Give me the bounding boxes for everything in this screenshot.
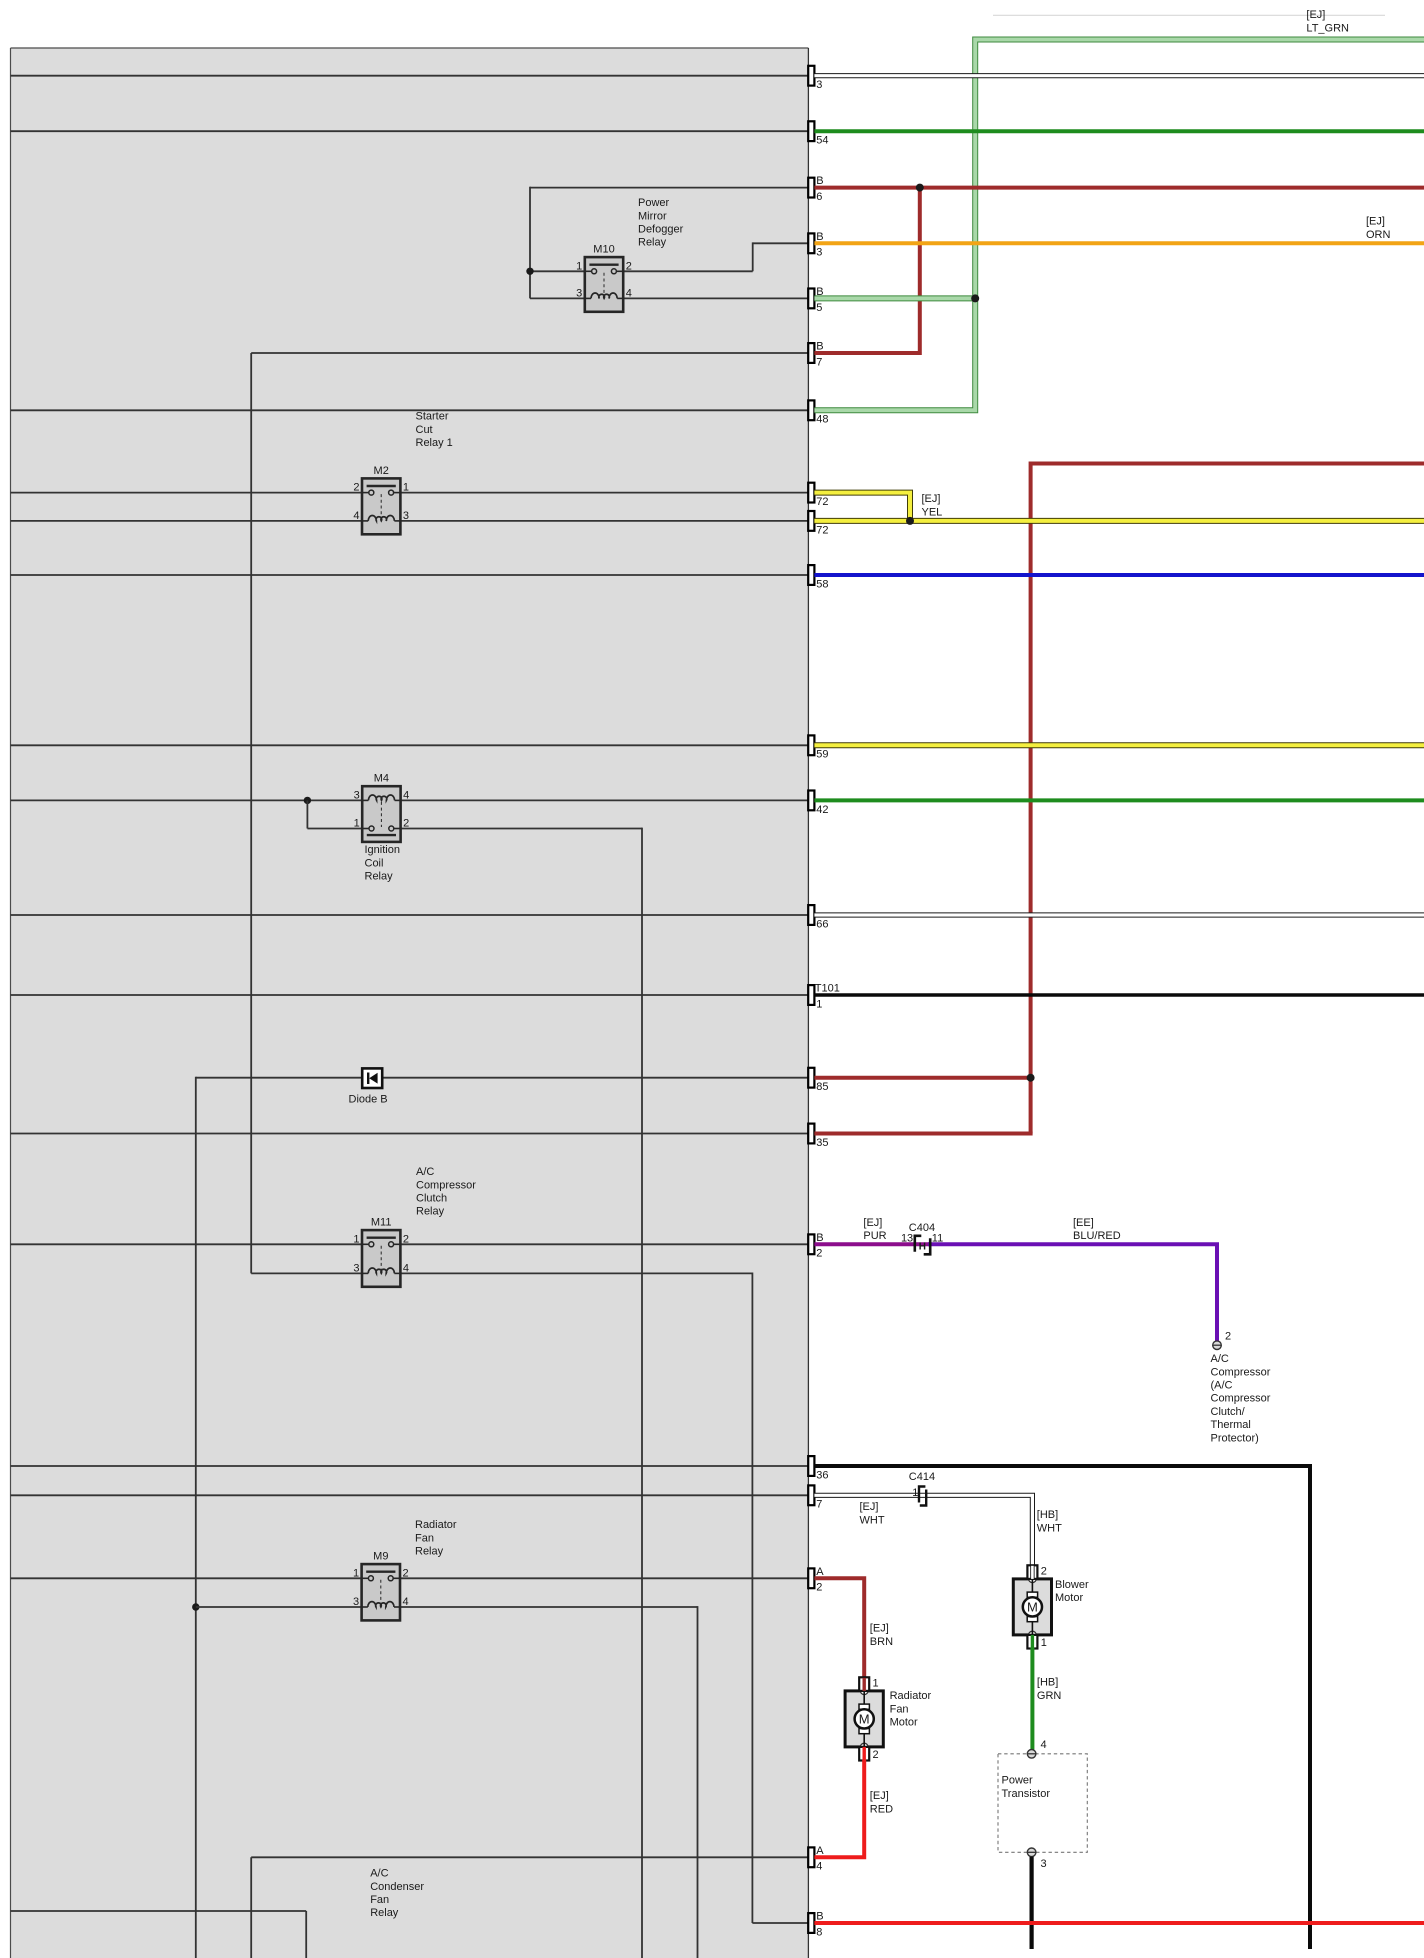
- svg-text:2: 2: [626, 260, 632, 272]
- pin 35: [808, 1124, 828, 1149]
- svg-text:8: 8: [816, 1926, 822, 1938]
- pin 59: [808, 735, 828, 760]
- svg-text:A/C: A/C: [416, 1166, 434, 1178]
- wire M9 coil row and pin4 drop: [196, 1606, 698, 1958]
- svg-text:Power: Power: [1002, 1775, 1034, 1787]
- svg-text:Mirror: Mirror: [638, 210, 667, 222]
- svg-text:4: 4: [1041, 1739, 1047, 1751]
- wire M11 pin4 drop to pin B8: [400, 1273, 808, 1924]
- svg-text:Condenser: Condenser: [370, 1881, 424, 1893]
- junction dot M4 branch: [304, 797, 311, 804]
- orange wire pin B3: [814, 241, 1424, 245]
- svg-text:M4: M4: [374, 773, 389, 785]
- white wire pin 3: [814, 73, 1424, 78]
- green wire pin 42: [814, 798, 1424, 802]
- pin B6: [808, 175, 823, 203]
- junction dot yellow 72: [906, 517, 914, 525]
- svg-text:PUR: PUR: [863, 1230, 886, 1242]
- wire M10 feed row to pin B6: [530, 187, 808, 189]
- wire row to pin 35: [11, 1133, 809, 1135]
- pin 3: [808, 66, 822, 91]
- relay M2: [353, 465, 409, 534]
- svg-text:3: 3: [816, 247, 822, 259]
- wire row to pin 59: [11, 744, 809, 746]
- svg-text:13: 13: [901, 1233, 913, 1245]
- svg-text:Power: Power: [638, 197, 670, 209]
- svg-text:1: 1: [1041, 1637, 1047, 1649]
- label Radiator Fan Relay: [415, 1519, 457, 1557]
- label Power Transistor: [1002, 1775, 1051, 1800]
- wire M4 pin2 drop: [401, 828, 642, 1958]
- maroon wire pin B6: [814, 186, 1424, 190]
- svg-text:Motor: Motor: [890, 1717, 918, 1729]
- wire row M2 coil to pin 72 lower: [11, 520, 809, 522]
- svg-text:2: 2: [403, 1233, 409, 1245]
- wire row to pin B7: [251, 353, 808, 1273]
- svg-text:WHT: WHT: [860, 1514, 885, 1526]
- yellow wire pin 72 lower: [814, 518, 1424, 524]
- wire diode row to pin 85: [196, 1077, 808, 1958]
- svg-text:48: 48: [816, 414, 828, 426]
- pin 48: [808, 400, 828, 425]
- svg-text:(A/C: (A/C: [1211, 1380, 1233, 1392]
- light green wire pin B5: [814, 295, 975, 301]
- svg-text:Compressor: Compressor: [416, 1179, 476, 1191]
- A/C compressor terminal 2: [1213, 1331, 1231, 1350]
- wire M4 pin1 branch: [307, 800, 362, 828]
- label EJ RED: [870, 1790, 893, 1815]
- wire row to pin 58: [11, 574, 809, 576]
- svg-text:LT_GRN: LT_GRN: [1306, 23, 1349, 35]
- svg-text:C414: C414: [909, 1471, 935, 1483]
- svg-text:[EJ]: [EJ]: [870, 1790, 889, 1802]
- svg-text:58: 58: [816, 578, 828, 590]
- svg-text:6: 6: [816, 191, 822, 203]
- white wire pin 7 to C414 to blower: [814, 1495, 1032, 1564]
- maroon wire pin B7 riser: [814, 186, 919, 353]
- svg-text:2: 2: [816, 1582, 822, 1594]
- svg-text:[EJ]: [EJ]: [863, 1217, 882, 1229]
- purple wire pin B2 to C404: [814, 1242, 930, 1246]
- svg-text:YEL: YEL: [922, 506, 943, 518]
- pin 72 upper: [808, 483, 828, 508]
- svg-text:4: 4: [816, 1861, 822, 1873]
- svg-text:Diode B: Diode B: [349, 1093, 388, 1105]
- svg-text:RED: RED: [870, 1803, 893, 1815]
- wire M10 pin2 step to pin B3: [623, 242, 808, 271]
- svg-text:35: 35: [816, 1137, 828, 1149]
- label Ignition Coil Relay: [365, 844, 400, 882]
- faint guide line top right: [993, 14, 1385, 16]
- label Radiator Fan Motor: [890, 1690, 932, 1728]
- svg-text:Motor: Motor: [1055, 1592, 1083, 1604]
- svg-text:Fan: Fan: [890, 1703, 909, 1715]
- svg-text:[EJ]: [EJ]: [1306, 9, 1325, 21]
- svg-text:4: 4: [403, 1596, 409, 1608]
- wire row to pin 36: [11, 1465, 809, 1467]
- svg-text:B: B: [816, 1232, 823, 1244]
- red wire radiator fan motor to pin A4: [814, 1760, 864, 1858]
- junction dot M9 coil branch: [192, 1603, 199, 1610]
- pin 85: [808, 1068, 828, 1093]
- svg-text:2: 2: [873, 1749, 879, 1761]
- svg-text:Radiator: Radiator: [890, 1690, 932, 1702]
- svg-text:66: 66: [816, 918, 828, 930]
- label Diode B: [349, 1093, 388, 1105]
- yellow wire pin 59: [814, 742, 1424, 748]
- svg-text:M2: M2: [374, 465, 389, 477]
- svg-text:11: 11: [932, 1233, 943, 1245]
- junction dot light green B5: [971, 294, 979, 302]
- svg-text:[EE]: [EE]: [1073, 1217, 1094, 1229]
- svg-text:3: 3: [403, 510, 409, 522]
- svg-text:[EJ]: [EJ]: [922, 493, 941, 505]
- pin A2: [808, 1566, 824, 1594]
- svg-text:Defogger: Defogger: [638, 224, 684, 236]
- svg-text:M9: M9: [373, 1551, 388, 1563]
- svg-text:BRN: BRN: [870, 1636, 893, 1648]
- svg-text:Relay: Relay: [415, 1546, 444, 1558]
- svg-text:54: 54: [816, 135, 828, 147]
- svg-text:Relay 1: Relay 1: [416, 437, 453, 449]
- wire row M2 switch to pin 72 upper: [11, 492, 809, 494]
- wire M10 pin4 to pin B5: [623, 297, 808, 299]
- svg-text:2: 2: [403, 818, 409, 830]
- light green wire pin 48 riser to LT_GRN: [814, 40, 1424, 411]
- power transistor: [998, 1739, 1087, 1870]
- svg-text:1: 1: [873, 1677, 879, 1689]
- label Starter Cut Relay 1: [416, 411, 453, 449]
- svg-text:Fan: Fan: [415, 1532, 434, 1544]
- svg-text:Thermal: Thermal: [1211, 1419, 1251, 1431]
- svg-text:Relay: Relay: [416, 1206, 445, 1218]
- svg-text:3: 3: [1041, 1858, 1047, 1870]
- svg-text:5: 5: [816, 302, 822, 314]
- label A/C Condenser Fan Relay: [370, 1868, 424, 1920]
- svg-text:1: 1: [912, 1487, 918, 1499]
- red wire pin B8: [814, 1921, 1424, 1925]
- junction dot maroon 85: [1027, 1074, 1035, 1082]
- svg-text:Compressor: Compressor: [1211, 1366, 1271, 1378]
- svg-text:Relay: Relay: [638, 237, 667, 249]
- svg-text:Transistor: Transistor: [1002, 1788, 1051, 1800]
- wire row to pin 7: [11, 1494, 809, 1496]
- svg-text:GRN: GRN: [1037, 1690, 1062, 1702]
- label A/C Compressor Clutch Relay: [416, 1166, 476, 1218]
- pin 72 lower: [808, 511, 828, 536]
- label HB GRN: [1037, 1677, 1062, 1702]
- svg-text:1: 1: [816, 998, 822, 1010]
- svg-text:Radiator: Radiator: [415, 1519, 457, 1531]
- maroon wire pin A2 to radiator fan motor: [814, 1578, 864, 1677]
- maroon wire pin 85: [814, 1076, 1030, 1080]
- svg-text:2: 2: [353, 482, 359, 494]
- svg-text:36: 36: [816, 1469, 828, 1481]
- svg-text:42: 42: [816, 804, 828, 816]
- svg-text:WHT: WHT: [1037, 1522, 1062, 1534]
- svg-text:[EJ]: [EJ]: [1366, 216, 1385, 228]
- svg-text:Blower: Blower: [1055, 1579, 1089, 1591]
- wire M11 coil row: [251, 1272, 362, 1274]
- label Blower Motor: [1055, 1579, 1089, 1604]
- pin B5: [808, 286, 823, 314]
- wire row to pin 48: [11, 409, 809, 411]
- svg-text:BLU/RED: BLU/RED: [1073, 1230, 1121, 1242]
- label Power Mirror Defogger Relay: [638, 197, 684, 249]
- wire row M11 switch to pin B2: [11, 1243, 809, 1245]
- label EJ ORN: [1366, 216, 1391, 241]
- blue wire pin 58: [814, 573, 1424, 577]
- svg-text:4: 4: [403, 1262, 409, 1274]
- radiator fan motor: [845, 1677, 883, 1761]
- svg-text:Relay: Relay: [370, 1907, 399, 1919]
- svg-text:Clutch: Clutch: [416, 1193, 447, 1205]
- svg-text:7: 7: [816, 1499, 822, 1511]
- svg-text:7: 7: [816, 356, 822, 368]
- wire M10 left riser with junction: [530, 187, 585, 299]
- pin B2: [808, 1232, 823, 1260]
- relay M9: [353, 1551, 409, 1621]
- wire row A/C condenser relay feed: [11, 1911, 307, 1958]
- svg-text:Clutch/: Clutch/: [1211, 1406, 1246, 1418]
- pin 66: [808, 905, 828, 930]
- pin T101-1: [808, 983, 840, 1011]
- svg-text:1: 1: [353, 1567, 359, 1579]
- svg-text:Cut: Cut: [416, 424, 433, 436]
- svg-text:A/C: A/C: [1211, 1353, 1229, 1365]
- wire row to pin A4: [251, 1857, 808, 1958]
- junction-block panel (gray background): [11, 48, 809, 1958]
- svg-text:B: B: [816, 1911, 823, 1923]
- thick black wire pin 36: [814, 1466, 1310, 1949]
- svg-text:72: 72: [816, 524, 828, 536]
- green wire pin 54: [814, 129, 1424, 133]
- pin 42: [808, 791, 828, 816]
- svg-text:3: 3: [576, 287, 582, 299]
- svg-text:1: 1: [354, 818, 360, 830]
- label HB WHT: [1037, 1509, 1062, 1534]
- maroon wire upper right branch: [1031, 464, 1424, 1134]
- svg-text:85: 85: [816, 1081, 828, 1093]
- label EJ YEL: [922, 493, 943, 518]
- svg-text:4: 4: [403, 789, 409, 801]
- svg-text:M11: M11: [371, 1217, 392, 1229]
- svg-text:T101: T101: [815, 983, 840, 995]
- svg-text:Relay: Relay: [365, 871, 394, 883]
- svg-text:1: 1: [353, 1233, 359, 1245]
- relay M11: [353, 1217, 409, 1287]
- black wire pin T101-1: [814, 993, 1424, 997]
- svg-text:2: 2: [1225, 1331, 1231, 1343]
- label A/C Compressor (clutch/thermal protector): [1211, 1353, 1271, 1444]
- svg-text:B: B: [816, 341, 823, 353]
- svg-text:M: M: [859, 1712, 870, 1727]
- svg-text:H: H: [919, 1242, 926, 1253]
- white wire pin 66: [814, 912, 1424, 917]
- wire row to pin 66: [11, 914, 809, 916]
- svg-text:[HB]: [HB]: [1037, 1509, 1058, 1521]
- svg-text:A: A: [816, 1845, 824, 1857]
- svg-text:A: A: [816, 1566, 824, 1578]
- label C414: [909, 1471, 935, 1499]
- pin 54: [808, 121, 828, 146]
- svg-text:Ignition: Ignition: [365, 844, 400, 856]
- svg-text:[HB]: [HB]: [1037, 1677, 1058, 1689]
- svg-text:2: 2: [1041, 1565, 1047, 1577]
- wire row to pin 3: [11, 75, 809, 77]
- junction dot M10 pin1: [526, 268, 533, 275]
- svg-text:Coil: Coil: [365, 857, 384, 869]
- pin 58: [808, 565, 828, 590]
- svg-text:3: 3: [353, 1596, 359, 1608]
- pin B8: [808, 1911, 823, 1939]
- label C404 pins: [901, 1222, 943, 1245]
- svg-text:M: M: [1027, 1600, 1038, 1615]
- svg-text:2: 2: [403, 1567, 409, 1579]
- label EE BLU/RED: [1073, 1217, 1121, 1242]
- svg-text:ORN: ORN: [1366, 229, 1391, 241]
- svg-text:3: 3: [816, 79, 822, 91]
- label EJ BRN: [870, 1623, 893, 1648]
- svg-text:72: 72: [816, 496, 828, 508]
- label EJ LT_GRN: [1306, 9, 1349, 35]
- svg-text:[EJ]: [EJ]: [870, 1623, 889, 1635]
- svg-text:B: B: [816, 231, 823, 243]
- svg-text:A/C: A/C: [370, 1868, 388, 1880]
- junction dot maroon B6/B7: [916, 184, 924, 192]
- svg-text:Protector): Protector): [1211, 1432, 1259, 1444]
- pin 7: [808, 1485, 822, 1510]
- yellow wire pin 72 upper step: [814, 493, 910, 521]
- wire row to pin 54: [11, 130, 809, 132]
- svg-text:3: 3: [353, 1262, 359, 1274]
- pin 36: [808, 1456, 828, 1481]
- relay M4: [354, 773, 410, 842]
- svg-text:C404: C404: [909, 1222, 935, 1234]
- connector C414: [919, 1487, 926, 1506]
- wire row M9 switch to pin A2: [11, 1577, 809, 1579]
- svg-text:1: 1: [576, 260, 582, 272]
- svg-text:1: 1: [403, 482, 409, 494]
- svg-text:Compressor: Compressor: [1211, 1393, 1271, 1405]
- black wire power transistor pin 3: [1029, 1857, 1033, 1949]
- svg-text:Starter: Starter: [416, 411, 449, 423]
- diode B: [362, 1068, 382, 1088]
- blower motor: [1013, 1565, 1051, 1649]
- label EJ PUR: [863, 1217, 886, 1242]
- svg-text:2: 2: [816, 1248, 822, 1260]
- pin B7: [808, 341, 823, 369]
- label EJ WHT: [860, 1501, 885, 1526]
- connector C404: [915, 1236, 930, 1255]
- svg-text:3: 3: [354, 789, 360, 801]
- pin A4: [808, 1845, 824, 1873]
- svg-text:4: 4: [353, 510, 359, 522]
- maroon wire pin 35: [814, 1132, 1032, 1136]
- relay M10: [576, 244, 632, 312]
- wire row M4 coil to pin 42: [11, 799, 809, 801]
- svg-text:59: 59: [816, 749, 828, 761]
- svg-text:Fan: Fan: [370, 1894, 389, 1906]
- violet wire C404 to A/C compressor: [928, 1244, 1217, 1341]
- pin B3: [808, 231, 823, 259]
- svg-text:[EJ]: [EJ]: [860, 1501, 879, 1513]
- svg-text:4: 4: [626, 287, 632, 299]
- svg-text:B: B: [816, 175, 823, 187]
- green wire HB GRN blower to power transistor: [1030, 1648, 1034, 1750]
- wire row to pin T101-1: [11, 994, 809, 996]
- svg-text:M10: M10: [593, 244, 614, 256]
